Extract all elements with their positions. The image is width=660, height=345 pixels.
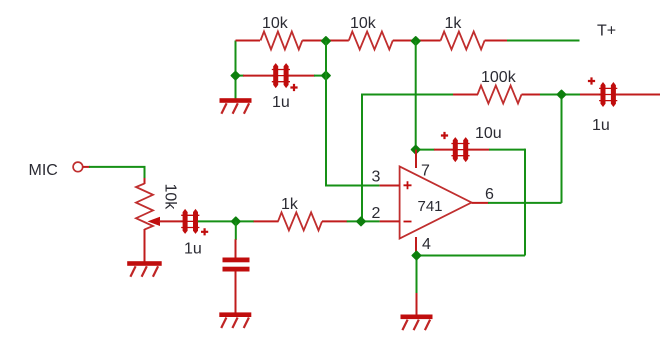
wire R4 right red stub	[322, 220, 347, 222]
wire C4 to right corner	[489, 149, 525, 151]
wire ground stub red (GND4)	[416, 293, 418, 315]
wire pot bottom to ground	[144, 229, 146, 262]
wire red stub R2 to R3	[393, 40, 441, 42]
wire pin6 to output corner	[488, 202, 562, 204]
svg-text:1u: 1u	[592, 117, 610, 134]
svg-text:1k: 1k	[445, 15, 463, 32]
wire net to T+ terminal	[507, 40, 580, 42]
wire pin3 row horizontal	[325, 185, 380, 187]
wire wiper to C2	[159, 220, 184, 222]
wire C1 right red stub	[288, 75, 315, 77]
wire C1 row left green	[236, 75, 245, 77]
node junction output/R5/C5	[557, 90, 565, 98]
wire C3 bottom to ground	[235, 271, 237, 313]
polarity + of C4	[441, 132, 448, 139]
svg-text:3: 3	[372, 169, 381, 186]
svg-text:1u: 1u	[184, 241, 202, 258]
node junction rail/C1 left	[231, 71, 239, 79]
node junction pin2/feedback	[357, 217, 365, 225]
wire C3 top red stub	[235, 239, 237, 258]
svg-text:741: 741	[418, 198, 443, 215]
node junction pin4	[412, 251, 420, 259]
svg-text:7: 7	[421, 163, 430, 180]
node junction pin7/C4	[412, 145, 420, 153]
wire C4 right red stub	[468, 149, 490, 151]
wire C1 row right green	[314, 75, 326, 77]
potentiometer wiper arrow	[148, 217, 161, 226]
svg-text:10k: 10k	[262, 15, 289, 32]
wire node R2R3 down to pin7 node	[415, 41, 417, 150]
wire R5 left red stub	[453, 94, 478, 96]
ground GND1	[220, 98, 252, 103]
svg-text:1k: 1k	[281, 196, 299, 213]
svg-text:100k: 100k	[481, 69, 517, 86]
wire down right of op-amp	[524, 149, 526, 256]
polarity + of C2	[201, 228, 208, 235]
node junction R2/R3	[412, 37, 420, 45]
svg-text:2: 2	[372, 205, 381, 222]
capacitor C1 1u	[273, 63, 278, 88]
wire R5 to output node	[540, 94, 581, 96]
resistor R1 10k	[261, 32, 303, 50]
capacitor C2 1u	[183, 209, 188, 234]
wire R4 to pin2 node	[347, 220, 380, 222]
wire C2 to input node	[198, 220, 236, 222]
wire pin4 node down	[416, 256, 418, 294]
ground GND4	[401, 315, 433, 320]
wire MIC red stub	[83, 166, 90, 168]
wire MIC to pot top	[89, 167, 145, 179]
wire top rail left corner down to C1 row	[235, 41, 237, 99]
wire C5 left red stub	[580, 94, 601, 96]
wire bottom across to pin4 node	[417, 255, 526, 257]
svg-text:MIC: MIC	[29, 162, 58, 179]
wire node R1R2 down to pin3 row	[325, 41, 327, 186]
svg-text:4: 4	[422, 236, 431, 253]
capacitor C3 top plate	[223, 258, 250, 263]
pin 3 stub	[380, 185, 400, 187]
wire input node to R4	[236, 220, 254, 222]
resistor R2 10k	[349, 32, 393, 50]
pin 6 stub	[472, 202, 489, 204]
op-amp U1 triangle	[400, 166, 472, 238]
resistor R5 100k	[478, 86, 522, 104]
pin 4 stub	[415, 237, 417, 256]
polarity + of C1	[290, 84, 297, 91]
resistor R4 1k	[278, 212, 322, 230]
terminal MIC circle	[73, 162, 83, 172]
op-amp U1 plus input mark	[404, 181, 412, 189]
wire input node down to C3	[235, 221, 237, 240]
capacitor C5 1u	[601, 82, 606, 107]
wire pot top red entry	[144, 178, 146, 184]
node junction pin3 net at R1/R2... mid dot on pin2 row input	[232, 217, 240, 225]
svg-text:1u: 1u	[272, 94, 290, 111]
wire feedback horizontal to R5	[361, 94, 454, 96]
node junction R1/R2	[322, 37, 330, 45]
svg-text:10k: 10k	[350, 15, 377, 32]
capacitor C3 bottom plate	[223, 267, 250, 272]
op-amp U1 minus input mark	[404, 221, 412, 223]
wire R4 left red stub	[254, 220, 279, 222]
svg-text:6: 6	[485, 186, 494, 203]
svg-text:10u: 10u	[475, 125, 502, 142]
potentiometer R6 10k body	[136, 184, 153, 230]
wire 10u row left green	[416, 149, 435, 151]
wire red stub R3 right	[485, 40, 507, 42]
wire red stub R1 to node	[302, 40, 349, 42]
resistor R3 1k	[441, 32, 485, 50]
wire C4 left red stub	[434, 149, 453, 151]
node junction C1 right	[322, 71, 330, 79]
wire output node down to pin6 row	[561, 95, 563, 203]
svg-text:10k: 10k	[162, 184, 179, 211]
wire feedback vertical x=362	[361, 95, 363, 222]
svg-text:T+: T+	[597, 23, 616, 40]
wire R5 right red stub	[522, 94, 541, 96]
capacitor C4 10u	[453, 137, 458, 162]
polarity + of C5	[588, 77, 595, 84]
ground GND2	[127, 261, 162, 266]
wire top rail red run under R1-R3	[236, 40, 261, 42]
wire C1 left red stub	[243, 75, 274, 77]
wire C5 right red stub to edge	[616, 94, 660, 96]
ground GND3	[219, 312, 251, 317]
pin 7 stub	[415, 150, 417, 168]
pin 2 stub	[380, 220, 400, 222]
